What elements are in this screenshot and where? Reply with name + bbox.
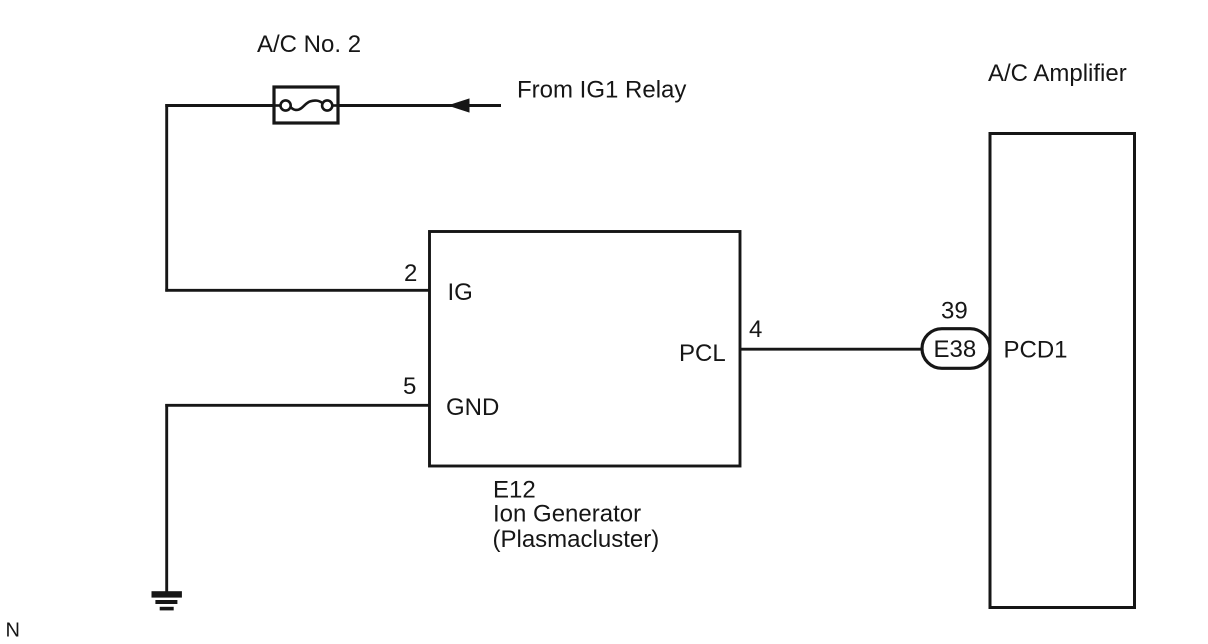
svg-text:4: 4 [749, 316, 762, 343]
svg-text:39: 39 [941, 298, 968, 325]
wire: horizontal run into IG pin 2 [165, 289, 429, 292]
svg-text:Ion Generator: Ion Generator [493, 501, 641, 528]
svg-text:GND: GND [446, 394, 499, 421]
wire: PCL pin 4 to connector E38 [740, 348, 923, 351]
wire: horizontal run from GND pin 5 [165, 404, 429, 407]
arrowhead: From IG1 Relay [448, 98, 470, 112]
wire: from IG1 relay feed, horizontal top run through fuse [165, 104, 501, 107]
svg-text:A/C No. 2: A/C No. 2 [257, 31, 361, 58]
A/C amplifier box [990, 134, 1135, 608]
svg-text:IG: IG [448, 279, 473, 306]
svg-text:PCD1: PCD1 [1004, 337, 1068, 364]
svg-text:5: 5 [403, 373, 416, 400]
svg-text:PCL: PCL [679, 340, 726, 367]
svg-text:2: 2 [404, 260, 417, 287]
wire: left vertical drop from fuse line to IG pin run [165, 104, 168, 292]
svg-text:E38: E38 [934, 336, 977, 363]
wire: left vertical drop from GND run to ground symbol [165, 404, 168, 592]
svg-text:E12: E12 [493, 477, 536, 504]
svg-text:A/C Amplifier: A/C Amplifier [988, 60, 1127, 87]
svg-text:(Plasmacluster): (Plasmacluster) [493, 526, 660, 553]
connector E38 oval [922, 329, 990, 369]
ion generator box E12 [430, 232, 741, 467]
ground [152, 591, 182, 610]
svg-text:N: N [6, 620, 20, 642]
svg-text:From IG1 Relay: From IG1 Relay [517, 77, 686, 104]
fuse A/C No. 2 [274, 87, 338, 123]
